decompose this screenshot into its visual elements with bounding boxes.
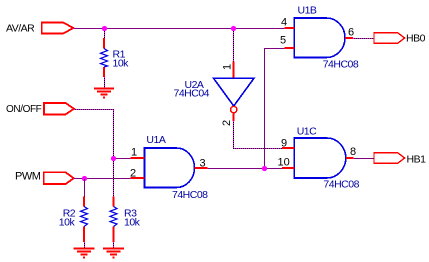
svg-text:9: 9 xyxy=(281,138,287,150)
svg-text:3: 3 xyxy=(200,158,206,170)
pin 9 stub of U1C xyxy=(282,147,294,149)
svg-text:74HC08: 74HC08 xyxy=(323,179,359,191)
inverter U2A triangle body xyxy=(214,78,255,106)
pin 5 stub of U1B xyxy=(285,47,295,49)
port HB0 xyxy=(374,33,405,43)
svg-text:10k: 10k xyxy=(124,217,141,229)
node junction AV/AR-U2A xyxy=(231,26,236,31)
pin 1 stub of U1A xyxy=(131,157,145,159)
svg-text:U1A: U1A xyxy=(146,134,165,146)
port HB1 xyxy=(374,153,405,163)
node junction PWM-R2 xyxy=(82,176,87,181)
svg-text:HB1: HB1 xyxy=(407,154,427,166)
and-gate U1C body xyxy=(294,138,345,178)
svg-text:74HC08: 74HC08 xyxy=(172,189,208,201)
wire U1C pin 8 to HB1 xyxy=(354,158,375,160)
node junction ON/OFF-pin1 xyxy=(111,156,116,161)
svg-text:HB0: HB0 xyxy=(406,33,426,45)
svg-text:AV/AR: AV/AR xyxy=(6,23,35,35)
port ON/OFF xyxy=(44,103,74,114)
resistor R3 body xyxy=(110,207,117,227)
resistor R1 body xyxy=(101,49,108,68)
wire U1B pin 6 to HB0 xyxy=(353,38,374,40)
wire U2A output to U1C pin 9 xyxy=(234,121,283,149)
resistor R2 body xyxy=(81,207,88,227)
svg-text:1: 1 xyxy=(222,64,234,70)
wire junction down to U2A pin 1 xyxy=(233,28,235,62)
svg-text:10k: 10k xyxy=(59,217,76,229)
pin 4 stub of U1B xyxy=(285,27,295,29)
wire R2 top lead xyxy=(84,179,86,197)
svg-text:ON/OFF: ON/OFF xyxy=(6,104,42,115)
wire junction down to R1 xyxy=(104,28,106,38)
svg-text:74HC08: 74HC08 xyxy=(323,59,359,71)
and-gate U1B body xyxy=(294,18,345,58)
svg-text:8: 8 xyxy=(350,146,356,158)
wire AV/AR net horizontal run xyxy=(73,28,284,30)
pin 8 stub of U1C xyxy=(346,157,354,159)
ground below R3 xyxy=(103,249,124,258)
wire U1A output to U1C pin 10 xyxy=(208,168,283,170)
inverter U2A output bubble xyxy=(231,106,237,112)
resistor R1 leads xyxy=(103,38,105,77)
ground below R2 xyxy=(74,249,95,258)
svg-text:6: 6 xyxy=(348,27,354,39)
svg-text:U1C: U1C xyxy=(297,126,317,138)
wire U1A output riser to U1B pin 5 xyxy=(265,49,285,170)
svg-text:74HC04: 74HC04 xyxy=(174,87,210,99)
svg-text:10k: 10k xyxy=(113,58,130,70)
resistor R3 leads xyxy=(113,197,115,243)
wire R3 to ground xyxy=(113,242,115,249)
svg-text:4: 4 xyxy=(281,17,287,29)
inverter U2A pin 2 stub xyxy=(233,113,235,121)
node junction U1A-out riser xyxy=(262,166,267,171)
svg-text:5: 5 xyxy=(280,35,286,47)
wire ON/OFF net to U1A pin 1 column and down to R3 xyxy=(74,110,114,197)
wire PWM net to U1A pin 2 xyxy=(74,178,131,180)
svg-text:PWM: PWM xyxy=(15,171,41,183)
pin 10 stub of U1C xyxy=(282,167,294,169)
wire R2 to ground xyxy=(84,242,86,249)
pin 6 stub of U1B xyxy=(345,37,353,39)
wire R1 to ground xyxy=(104,77,106,89)
svg-text:1: 1 xyxy=(131,147,137,159)
port AV/AR xyxy=(42,22,74,33)
and-gate U1A body xyxy=(145,148,195,188)
resistor R2 leads xyxy=(83,197,85,243)
svg-text:2: 2 xyxy=(221,120,233,126)
ground below R1 xyxy=(94,89,114,98)
pin 2 stub of U1A xyxy=(131,177,145,179)
wire junction to U1A pin 1 xyxy=(114,158,131,160)
port PWM xyxy=(44,172,74,184)
svg-text:10: 10 xyxy=(278,157,290,169)
node junction AV/AR-R1 xyxy=(102,26,107,31)
pin 3 stub of U1A xyxy=(195,167,208,169)
svg-text:2: 2 xyxy=(130,168,136,180)
inverter U2A pin 1 stub xyxy=(233,62,235,79)
svg-text:U1B: U1B xyxy=(298,5,317,17)
